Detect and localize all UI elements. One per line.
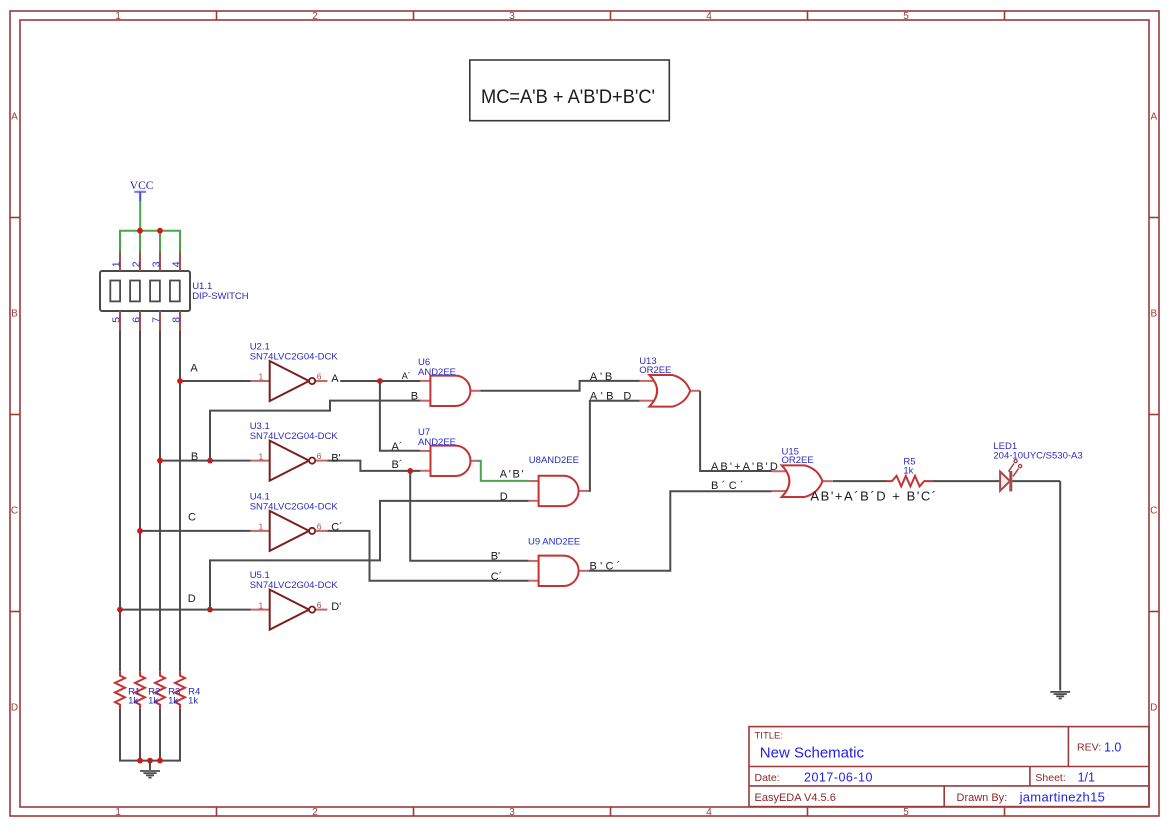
svg-text:C: C (11, 505, 18, 516)
junction B branch (207, 458, 213, 464)
svg-text:DIP-SWITCH: DIP-SWITCH (192, 291, 249, 302)
labels R1-R4 values (128, 686, 200, 706)
wire B tap to U3.1 (160, 460, 251, 462)
wire resistor to bus x=140 (139, 709, 141, 761)
svg-text:AND2EE: AND2EE (418, 367, 456, 378)
VCC power flag (130, 180, 154, 201)
wire A'B' (green) U7 to U8 (477, 461, 529, 481)
svg-text:A´: A´ (392, 441, 403, 453)
svg-text:1k: 1k (188, 696, 198, 707)
svg-text:A´: A´ (402, 371, 411, 381)
svg-text:C´: C´ (331, 522, 343, 534)
wire A'B D from U8 to U13 input B (589, 401, 640, 491)
frame column numbers (115, 11, 909, 818)
svg-text:MC=A'B + A'B'D+B'C': MC=A'B + A'B'D+B'C' (481, 86, 655, 108)
svg-text:B: B (11, 308, 18, 319)
junction D tap (117, 607, 123, 613)
svg-text:OR2EE: OR2EE (639, 365, 671, 376)
wire D to U8 input D (210, 501, 529, 610)
junction ground bus x=140 (137, 758, 143, 764)
svg-text:1: 1 (259, 522, 264, 532)
svg-text:6: 6 (317, 451, 322, 461)
svg-text:A: A (190, 363, 198, 375)
wire DIP column x=140 (139, 331, 141, 671)
wire green drop to DIP pin at x=120 (119, 231, 121, 251)
wire DIP column x=160 (159, 331, 161, 671)
svg-text:204-10UYC/S530-A3: 204-10UYC/S530-A3 (993, 450, 1082, 461)
inverter U4.1 SN74LVC2G04-DCK (250, 491, 339, 551)
svg-text:1/1: 1/1 (1078, 770, 1095, 784)
svg-text:Drawn By:: Drawn By: (957, 792, 1008, 804)
svg-text:B: B (1150, 308, 1157, 319)
svg-text:A'B: A'B (590, 371, 615, 383)
svg-text:2017-06-10: 2017-06-10 (804, 770, 873, 784)
AND gate U8 (529, 455, 589, 506)
svg-text:B'C´: B'C´ (590, 560, 624, 572)
svg-text:A: A (11, 111, 18, 122)
svg-text:D: D (188, 593, 196, 605)
svg-text:1: 1 (115, 807, 121, 818)
wire ground stem (149, 761, 151, 770)
svg-text:5: 5 (111, 317, 123, 323)
svg-text:D: D (500, 491, 508, 503)
ground symbol under resistors (140, 771, 160, 778)
inverter U5.1 SN74LVC2G04-DCK (250, 570, 339, 630)
wire AB'+A'B'D from U13 to U15 input A (700, 391, 771, 471)
svg-text:C: C (1150, 505, 1157, 516)
wire green drop to DIP pin at x=180 (179, 231, 181, 251)
svg-text:4: 4 (171, 261, 183, 267)
svg-text:New Schematic: New Schematic (760, 745, 865, 762)
junction VCC bus (157, 228, 163, 234)
svg-text:6: 6 (317, 521, 322, 531)
svg-text:1: 1 (259, 372, 264, 382)
svg-text:Date:: Date: (755, 772, 780, 784)
AND gate U6 (418, 357, 480, 406)
svg-text:3: 3 (509, 11, 515, 22)
svg-text:AND2EE: AND2EE (418, 437, 456, 448)
junction VCC bus / stem (137, 228, 143, 234)
OR gate U15 (772, 447, 833, 497)
svg-text:6: 6 (317, 372, 322, 382)
LED D1 (LED1) (993, 441, 1082, 492)
wire green drop to DIP pin at x=160 (159, 231, 161, 251)
svg-text:6: 6 (131, 317, 143, 323)
svg-text:1: 1 (259, 451, 264, 461)
svg-text:AB'+A'B'D: AB'+A'B'D (711, 461, 780, 473)
svg-text:A: A (331, 373, 339, 385)
wire VCC bus (green) (119, 230, 181, 232)
svg-text:B´C´: B´C´ (711, 480, 747, 492)
svg-text:U9 AND2EE: U9 AND2EE (528, 536, 580, 547)
svg-text:C´: C´ (491, 571, 503, 583)
svg-text:VCC: VCC (130, 180, 154, 192)
svg-text:U8AND2EE: U8AND2EE (529, 455, 579, 466)
wire U15 output to R5 (833, 480, 887, 482)
DIP switch pin numbers (111, 261, 183, 322)
svg-text:1k: 1k (168, 696, 178, 707)
svg-text:1k: 1k (903, 466, 913, 477)
svg-text:1k: 1k (128, 696, 138, 707)
svg-text:U4.1: U4.1 (250, 491, 270, 502)
svg-text:2: 2 (131, 261, 143, 267)
svg-text:SN74LVC2G04-DCK: SN74LVC2G04-DCK (250, 431, 339, 442)
wire B to U6 input B (210, 401, 420, 461)
wire VCC stem (green) (139, 201, 141, 231)
wire A'B from U6 to U13 input A (480, 381, 640, 391)
wire green drop to DIP pin at x=140 (139, 231, 141, 251)
wire A tap to U2.1 (180, 380, 251, 382)
svg-text:2: 2 (312, 11, 318, 22)
svg-text:D': D' (331, 601, 341, 613)
svg-text:2: 2 (312, 807, 318, 818)
junction B' branch (407, 468, 413, 474)
wire B'C' from U9 to U15 input B (589, 491, 772, 571)
svg-text:A'B': A'B' (500, 469, 526, 481)
wire resistor to bus x=160 (159, 709, 161, 761)
svg-text:C: C (188, 512, 196, 524)
svg-text:D: D (11, 702, 18, 713)
wire B' to U9 input A (410, 471, 528, 561)
title block (749, 727, 1149, 807)
svg-text:1k: 1k (148, 696, 158, 707)
svg-text:B: B (411, 391, 418, 403)
junction C tap (137, 528, 143, 534)
junction B tap (157, 458, 163, 464)
wire B' from U3.1 to U7 input B (327, 461, 420, 471)
wire DIP column x=180 (179, 331, 181, 671)
svg-text:B: B (191, 451, 198, 463)
svg-text:1: 1 (115, 11, 121, 22)
svg-text:jamartinezh15: jamartinezh15 (1019, 790, 1106, 805)
wire A' to U7 input A (380, 381, 421, 451)
svg-text:3: 3 (509, 807, 515, 818)
svg-text:B´: B´ (392, 459, 403, 471)
svg-text:1.0: 1.0 (1104, 741, 1121, 755)
junction ground bus x=150 (147, 758, 153, 764)
svg-text:AB'+A´B´D + B'C´: AB'+A´B´D + B'C´ (810, 489, 937, 504)
AND gate U9 (528, 536, 589, 586)
DIP switch U1.1 body (100, 271, 190, 311)
svg-text:1: 1 (259, 600, 264, 610)
svg-text:7: 7 (151, 317, 163, 323)
resistor R4 (175, 671, 185, 709)
svg-text:U2.1: U2.1 (250, 342, 270, 353)
inverter U3.1 SN74LVC2G04-DCK (250, 421, 339, 481)
svg-text:A'B D: A'B D (590, 391, 635, 403)
junction A tap (177, 378, 183, 384)
wire resistor to bus x=180 (179, 709, 181, 761)
svg-text:REV:: REV: (1077, 742, 1101, 754)
svg-text:TITLE:: TITLE: (755, 731, 784, 742)
junction A' branch (377, 378, 383, 384)
AND gate U7 (418, 427, 481, 476)
svg-text:8: 8 (171, 317, 183, 323)
DIP switch pins (120, 251, 180, 331)
frame row letters (11, 111, 1158, 713)
svg-text:B': B' (331, 452, 340, 464)
junction D branch (207, 607, 213, 613)
svg-text:EasyEDA V4.5.6: EasyEDA V4.5.6 (755, 792, 836, 804)
resistor R2 (135, 671, 145, 709)
resistor R1 (115, 671, 125, 709)
svg-text:SN74LVC2G04-DCK: SN74LVC2G04-DCK (250, 352, 339, 363)
svg-text:A: A (1150, 111, 1157, 122)
resistor R3 (155, 671, 165, 709)
svg-text:D: D (1150, 702, 1157, 713)
svg-text:1: 1 (111, 261, 123, 267)
wire D tap to U5.1 (120, 609, 251, 611)
OR gate U13 (639, 356, 700, 406)
svg-text:6: 6 (317, 600, 322, 610)
svg-text:5: 5 (903, 807, 909, 818)
junction ground bus x=160 (157, 758, 163, 764)
wire LED1 to ground (1059, 481, 1061, 690)
svg-text:3: 3 (151, 261, 163, 267)
svg-text:OR2EE: OR2EE (782, 455, 814, 466)
svg-text:B': B' (491, 551, 500, 563)
wire ground bus (119, 760, 181, 762)
wire C' from U4.1 to U9 input B (327, 531, 528, 581)
svg-text:4: 4 (706, 807, 712, 818)
svg-text:SN74LVC2G04-DCK: SN74LVC2G04-DCK (250, 580, 339, 591)
svg-text:U5.1: U5.1 (250, 570, 270, 581)
equation text box MC=A'B + A'B'D+B'C' (470, 60, 670, 121)
svg-text:4: 4 (706, 11, 712, 22)
svg-text:U3.1: U3.1 (250, 421, 270, 432)
wire R5 to LED1 to corner (932, 480, 1060, 482)
wire C tap to U4.1 (140, 530, 251, 532)
svg-text:Sheet:: Sheet: (1035, 772, 1065, 784)
resistor R5 (886, 456, 932, 486)
ground symbol at LED1 (1050, 692, 1070, 699)
svg-text:SN74LVC2G04-DCK: SN74LVC2G04-DCK (250, 501, 339, 512)
svg-text:5: 5 (903, 11, 909, 22)
wire DIP column x=120 (119, 331, 121, 671)
wire resistor to bus x=120 (119, 709, 121, 761)
wire A' from U2.1 to U6 input A (340, 380, 420, 382)
inverter U2.1 SN74LVC2G04-DCK (250, 342, 339, 402)
